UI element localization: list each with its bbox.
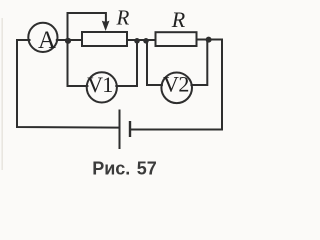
- svg-text:A: A: [38, 27, 56, 54]
- svg-text:R: R: [115, 6, 129, 30]
- svg-text:R: R: [171, 7, 186, 32]
- svg-text:V2: V2: [163, 72, 189, 97]
- svg-text:Рис. 57: Рис. 57: [92, 159, 157, 179]
- svg-text:V1: V1: [87, 72, 112, 97]
